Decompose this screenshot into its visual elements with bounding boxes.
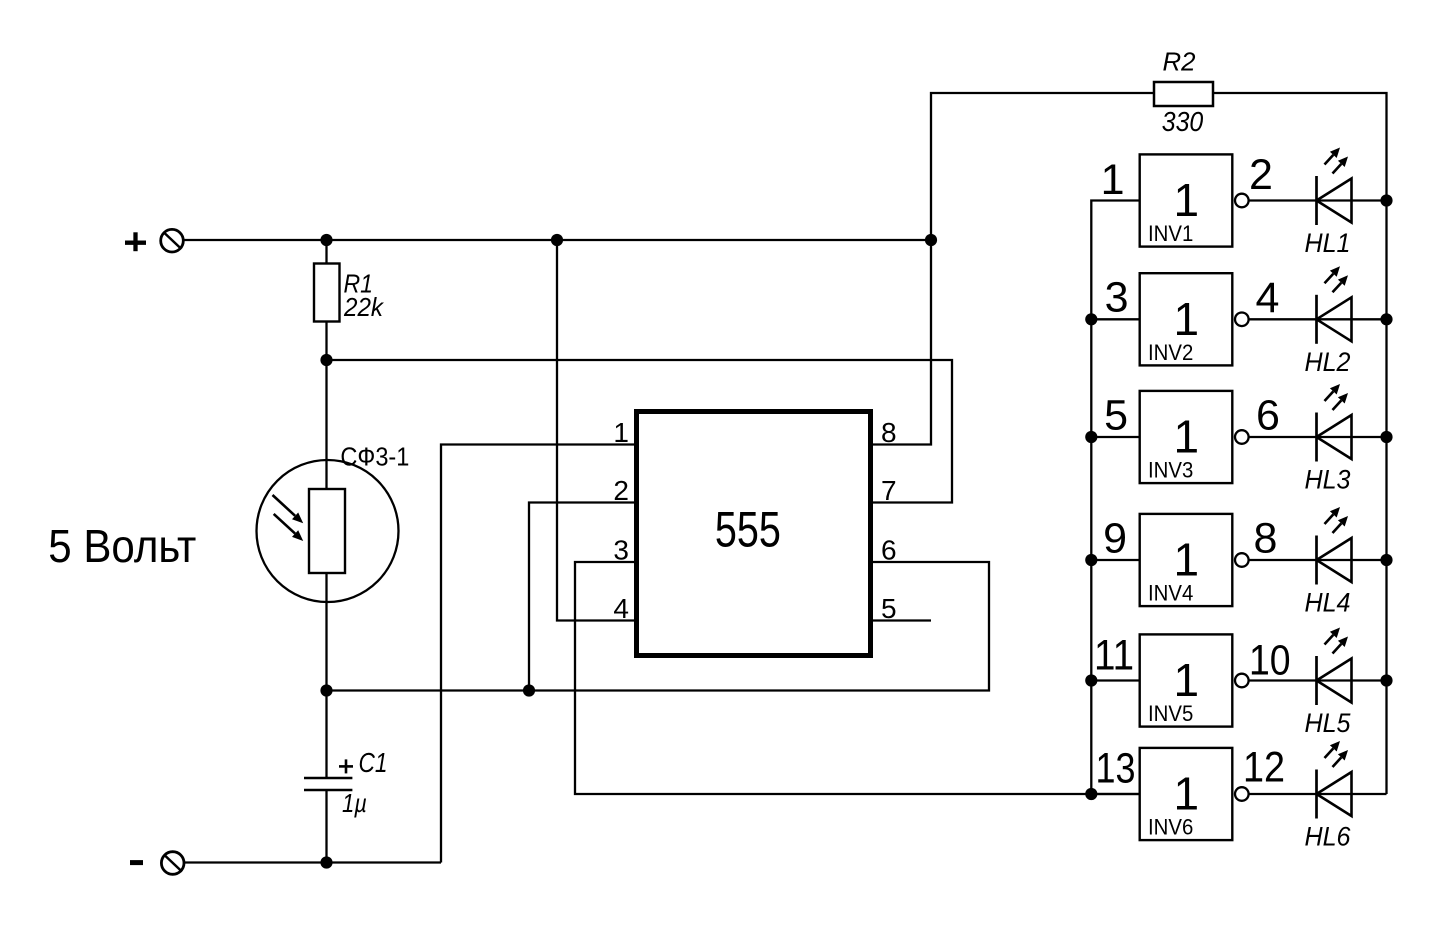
- junction: input bus / INV5 input: [1085, 674, 1097, 686]
- inverter U2.1 (INV1): [1140, 154, 1233, 246]
- junction: LED bus / HL2: [1380, 313, 1392, 325]
- svg-text:22k: 22k: [343, 292, 385, 322]
- wire: R1 to node A: [325, 322, 327, 361]
- svg-text:8: 8: [881, 417, 897, 448]
- wire: C1 to ground rail: [325, 790, 327, 863]
- junction node A: R1 / photoresistor / pin7 wire: [320, 354, 332, 366]
- wire: node A to 555 pin 7: [327, 360, 953, 503]
- wire: INV3 input: [1091, 436, 1138, 438]
- svg-text:INV1: INV1: [1148, 221, 1193, 246]
- inverter output bubble INV4: [1235, 553, 1249, 567]
- wire: inverter input bus: [1091, 201, 1138, 795]
- svg-text:HL6: HL6: [1305, 822, 1352, 852]
- LED HL6: [1317, 741, 1352, 819]
- wire: 555 pin 8 to +5V rail and R2: [873, 93, 1154, 445]
- svg-text:HL2: HL2: [1305, 347, 1351, 377]
- inverter output bubble INV5: [1235, 674, 1249, 688]
- svg-text:11: 11: [1094, 631, 1134, 679]
- resistor R2: [1154, 82, 1213, 106]
- junction: LED bus / HL5: [1380, 674, 1392, 686]
- svg-text:5: 5: [881, 593, 897, 624]
- svg-text:8: 8: [1254, 515, 1278, 563]
- wire: rail to R1: [325, 240, 327, 264]
- IC U1 555 timer: [637, 412, 871, 656]
- svg-text:330: 330: [1162, 106, 1204, 137]
- junction: ground rail / C1: [320, 856, 332, 868]
- LED HL3: [1317, 384, 1352, 462]
- terminal: + supply input: [125, 229, 183, 252]
- svg-text:INV5: INV5: [1148, 701, 1193, 726]
- svg-text:INV6: INV6: [1148, 815, 1193, 840]
- junction: rail / R1 top: [320, 234, 332, 246]
- junction: pin2 riser on node-B wire: [523, 684, 535, 696]
- svg-text:HL4: HL4: [1305, 588, 1351, 618]
- svg-text:1: 1: [1101, 156, 1125, 204]
- svg-text:1: 1: [613, 417, 629, 448]
- inverter U2.2 (INV2): [1140, 273, 1233, 365]
- svg-text:5: 5: [1104, 392, 1128, 440]
- svg-text:HL1: HL1: [1305, 228, 1351, 258]
- junction: input bus / INV3 input: [1085, 431, 1097, 443]
- LED HL1: [1317, 148, 1352, 226]
- junction: rail / pin8-R2 riser: [925, 234, 937, 246]
- svg-text:4: 4: [613, 593, 629, 624]
- svg-text:HL3: HL3: [1305, 465, 1351, 495]
- svg-text:1: 1: [1174, 411, 1200, 463]
- svg-text:HL5: HL5: [1305, 708, 1352, 738]
- inverter U2.6 (INV6): [1140, 748, 1233, 840]
- svg-text:6: 6: [1256, 392, 1280, 440]
- junction: rail / pin4 riser: [551, 234, 563, 246]
- inverter U2.5 (INV5): [1140, 634, 1233, 726]
- junction: input bus / INV6 input: [1085, 788, 1097, 800]
- wire: R2 to LED anode bus: [1213, 93, 1387, 794]
- wire: INV6 output to LED bus: [1249, 793, 1387, 795]
- wire: INV6 input: [1091, 793, 1138, 795]
- svg-text:1µ: 1µ: [342, 788, 367, 818]
- inverter output bubble INV1: [1235, 194, 1249, 208]
- LED HL5: [1317, 628, 1352, 706]
- svg-text:1: 1: [1174, 174, 1200, 226]
- svg-text:3: 3: [1105, 274, 1129, 322]
- wire: INV4 output to LED bus: [1249, 559, 1387, 561]
- inverter output bubble INV2: [1235, 313, 1249, 327]
- wire: 555 pin 1 to ground rail: [441, 445, 634, 863]
- svg-text:13: 13: [1096, 745, 1136, 793]
- svg-text:6: 6: [881, 535, 897, 566]
- wire: 555 pin 3 to inverter input bus: [575, 562, 1139, 794]
- terminal: - supply input: [130, 852, 184, 875]
- svg-text:2: 2: [1249, 151, 1273, 199]
- inverter U2.3 (INV3): [1140, 391, 1233, 483]
- svg-text:5 Вольт: 5 Вольт: [48, 520, 196, 572]
- wire: 555 pin 2 to node B: [529, 503, 634, 691]
- svg-text:R2: R2: [1163, 47, 1197, 77]
- LED HL2: [1317, 266, 1352, 344]
- capacitor C1: [304, 759, 353, 790]
- junction: LED bus / HL4: [1380, 554, 1392, 566]
- svg-text:2: 2: [613, 475, 629, 506]
- svg-text:3: 3: [613, 535, 629, 566]
- svg-text:12: 12: [1243, 743, 1285, 791]
- junction: LED bus / HL1: [1380, 194, 1392, 206]
- inverter output bubble INV3: [1235, 430, 1249, 444]
- junction node B: photoresistor / C1 / pin2/pin6 net: [320, 684, 332, 696]
- junction: input bus / INV4 input: [1085, 554, 1097, 566]
- wire: INV4 input: [1091, 559, 1138, 561]
- inverter U2.4 (INV4): [1140, 514, 1233, 606]
- svg-text:555: 555: [715, 502, 781, 558]
- svg-text:10: 10: [1249, 637, 1291, 685]
- wire: node B to C1: [325, 691, 327, 779]
- svg-text:1: 1: [1174, 293, 1200, 345]
- wire: INV2 output to LED bus: [1249, 318, 1387, 320]
- wire: node A to photoresistor: [325, 360, 327, 490]
- wire: ground rail: [184, 861, 441, 863]
- svg-text:1: 1: [1174, 768, 1200, 820]
- wire: INV1 output to LED bus: [1249, 199, 1387, 201]
- svg-text:INV4: INV4: [1148, 581, 1193, 606]
- wire: INV2 input: [1091, 318, 1138, 320]
- wire: INV3 output to LED bus: [1249, 436, 1387, 438]
- wire: 555 pin 5 stub: [873, 619, 931, 621]
- svg-text:INV2: INV2: [1148, 340, 1193, 365]
- svg-text:1: 1: [1174, 654, 1200, 706]
- svg-text:7: 7: [881, 475, 897, 506]
- svg-text:C1: C1: [359, 747, 388, 778]
- wire: node B to 555 pin 6: [327, 562, 990, 691]
- wire: photoresistor to node B: [325, 573, 327, 691]
- wire: INV5 output to LED bus: [1249, 679, 1387, 681]
- wire: +5V rail: [183, 239, 931, 241]
- photoresistor CF3-1: [257, 460, 399, 602]
- svg-text:INV3: INV3: [1148, 458, 1193, 483]
- svg-text:СФ3-1: СФ3-1: [340, 442, 409, 472]
- resistor R1: [314, 264, 340, 322]
- svg-text:1: 1: [1174, 534, 1200, 586]
- svg-text:4: 4: [1256, 274, 1280, 322]
- LED HL4: [1317, 507, 1352, 585]
- junction: LED bus / HL3: [1380, 431, 1392, 443]
- wire: INV5 input: [1091, 679, 1138, 681]
- inverter output bubble INV6: [1235, 787, 1249, 801]
- wire: 555 pin 4 to +5V rail: [557, 240, 634, 621]
- svg-text:9: 9: [1103, 515, 1127, 563]
- junction: input bus / INV2 input: [1085, 313, 1097, 325]
